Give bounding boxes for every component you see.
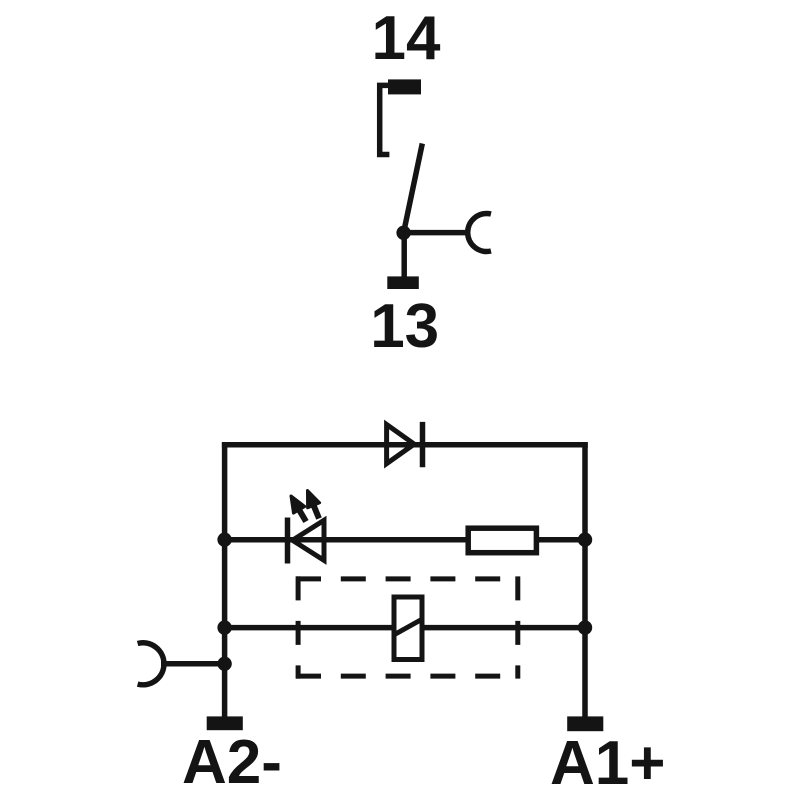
terminal 13 pad: [387, 276, 419, 289]
svg-text:13: 13: [370, 292, 439, 361]
LED emission arrow 1 head: [291, 496, 305, 513]
terminal A1 pad: [567, 716, 603, 731]
LED emission arrow 2 head: [308, 491, 320, 508]
wire: relay coil row: [225, 625, 585, 631]
LED triangle: [293, 520, 325, 560]
wire: left vertical rail (A2 side): [222, 442, 228, 717]
relay coil K1 diagonal: [395, 620, 422, 635]
junction node coil row right: [578, 620, 592, 634]
junction node socket row left: [217, 657, 231, 671]
relay outline dashed enclosure: right edge: [515, 576, 520, 678]
wire from pivot node down to terminal 13: [401, 233, 407, 278]
plug-in socket fork at A2 (opening left): [138, 643, 164, 685]
plug-in socket fork (opening right): [468, 214, 491, 252]
relay outline dashed enclosure: top edge: [296, 576, 520, 581]
freewheeling diode V1 cathode bar: [420, 422, 426, 467]
junction node LED row left: [217, 533, 231, 547]
terminal 14 pad: [388, 79, 421, 94]
freewheeling diode V1 triangle: [387, 425, 415, 464]
wire from pivot node to plug-in socket: [404, 230, 470, 236]
LED cathode bar: [285, 518, 291, 564]
wire: right vertical rail (A1 side): [582, 442, 588, 717]
LED emission arrow 1 shaft: [299, 510, 306, 522]
svg-text:A1+: A1+: [550, 729, 665, 798]
svg-text:A2-: A2-: [182, 728, 282, 797]
terminal A2 pad: [207, 716, 243, 730]
junction node LED row right: [578, 533, 592, 547]
junction node at contact pivot: [396, 226, 410, 240]
fixed contact bracket of NO contact: [380, 85, 390, 154]
relay contact blade (NO contact 13-14): [404, 144, 423, 233]
wire from A2 socket to left rail: [161, 661, 225, 667]
relay outline dashed enclosure: left edge: [296, 576, 301, 678]
junction node coil row left: [217, 620, 231, 634]
svg-text:14: 14: [372, 4, 441, 73]
wire: LED / resistor row: [225, 537, 585, 543]
LED emission arrow 2 shaft: [314, 505, 319, 518]
series resistor R1: [468, 528, 536, 553]
relay outline dashed enclosure: bottom edge: [296, 674, 520, 679]
wire: top rail with freewheeling diode: [222, 442, 588, 448]
relay coil K1 body: [394, 597, 422, 660]
